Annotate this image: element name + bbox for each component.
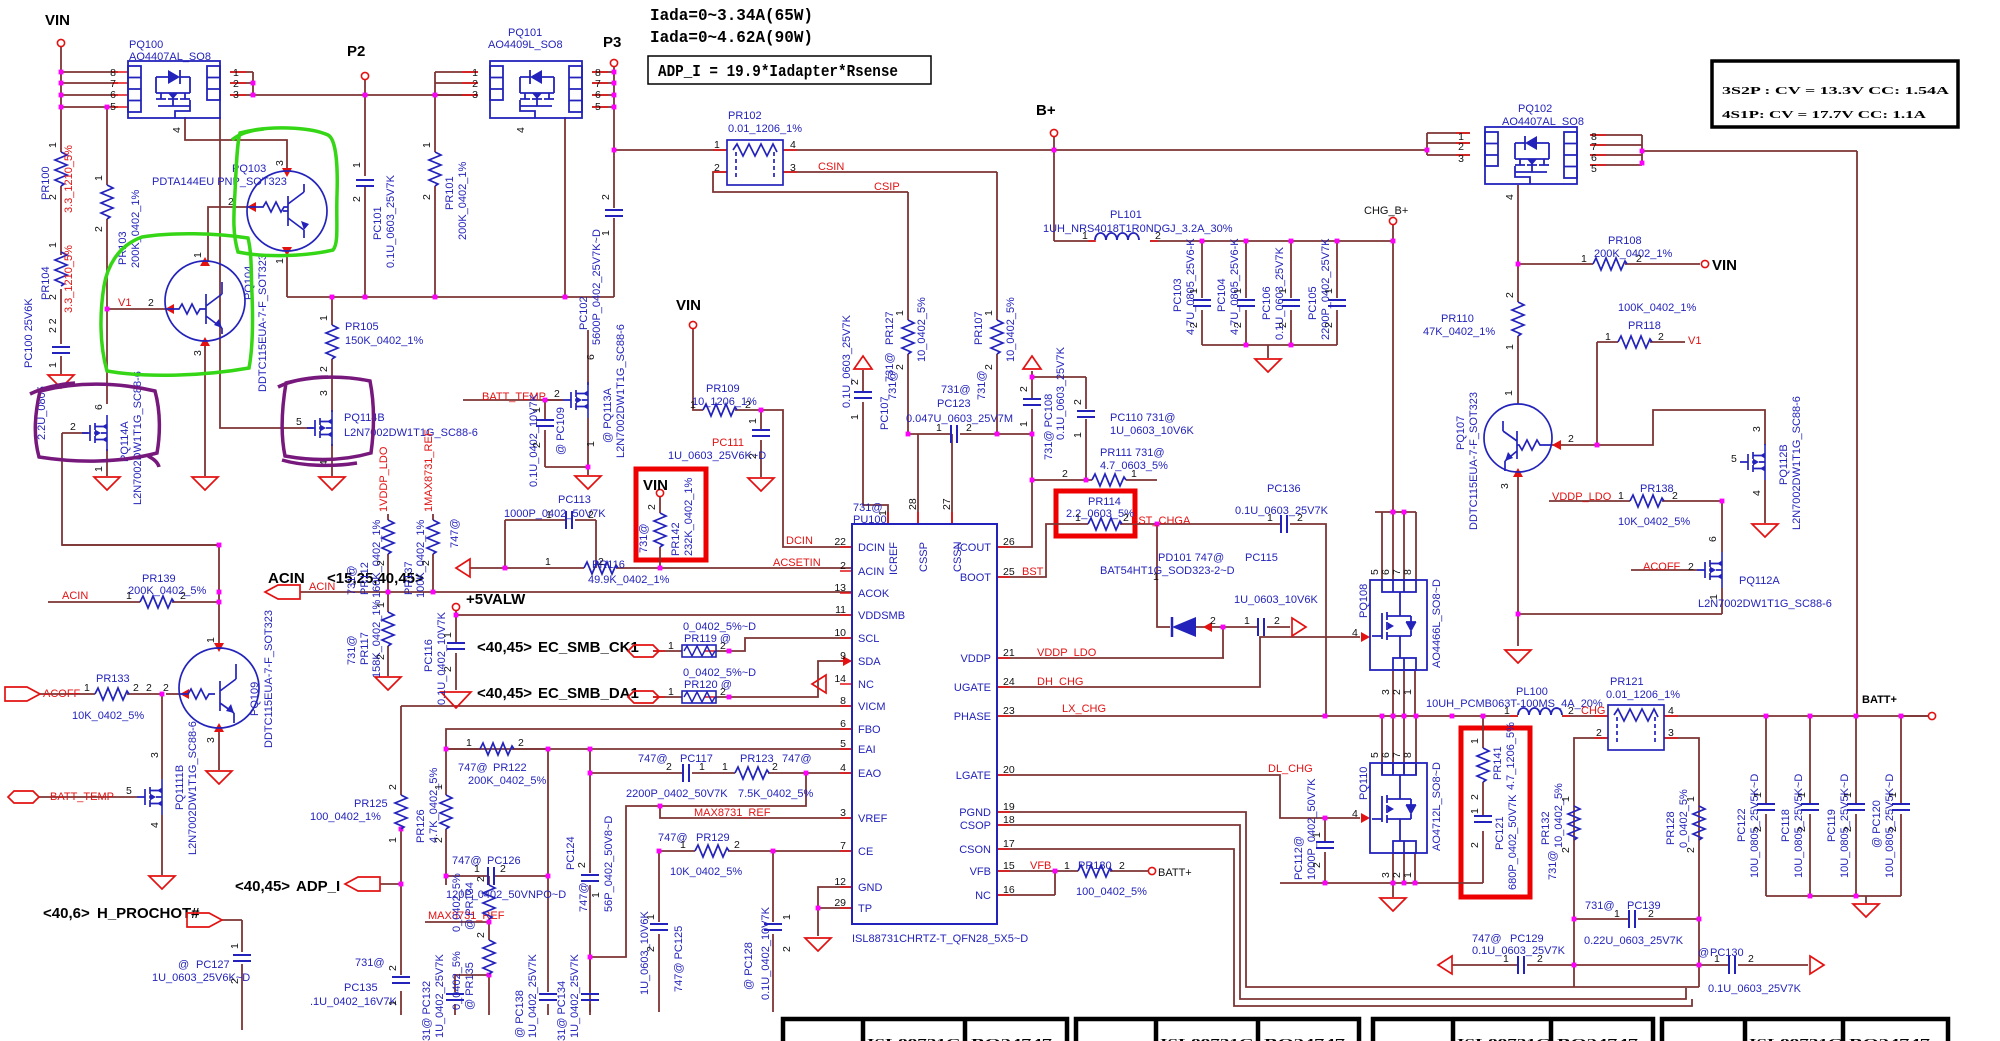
svg-text:CSSP: CSSP (918, 542, 930, 572)
svg-text:2: 2 (531, 442, 543, 448)
svg-text:PC107: PC107 (879, 396, 891, 430)
svg-text:1: 1 (645, 914, 657, 920)
annotation green loop PQ104 (101, 234, 253, 376)
svg-text:0.1U_0603_25V7K: 0.1U_0603_25V7K (841, 314, 853, 408)
junction (217, 600, 222, 605)
svg-text:3: 3 (1458, 153, 1464, 165)
capacitor PC101 (351, 162, 397, 268)
svg-text:PC103: PC103 (1172, 278, 1184, 312)
svg-text:VIN: VIN (643, 477, 668, 494)
resistor PR105 (318, 315, 424, 372)
svg-text:1U_0603_10V6K: 1U_0603_10V6K (1110, 425, 1194, 437)
svg-text:3: 3 (1668, 727, 1674, 739)
svg-text:731@: 731@ (346, 565, 358, 595)
ground (1752, 524, 1778, 537)
wire PC116 column (455, 615, 457, 690)
svg-text:BQ24747: BQ24747 (1264, 1037, 1346, 1041)
svg-text:VDDSMB: VDDSMB (858, 610, 905, 622)
ground (1380, 898, 1406, 911)
svg-text:0.1U_0603_25V7K: 0.1U_0603_25V7K (1472, 945, 1566, 957)
svg-text:3: 3 (274, 160, 286, 166)
junction (1572, 917, 1577, 922)
svg-text:56P_0402_50V8~D: 56P_0402_50V8~D (603, 816, 615, 912)
svg-text:B+: B+ (1036, 102, 1056, 119)
junction (444, 874, 449, 879)
svg-text:0_0402_5%: 0_0402_5% (451, 873, 463, 932)
svg-text:EC_SMB_DA1: EC_SMB_DA1 (538, 685, 639, 702)
svg-text:PQ101: PQ101 (508, 27, 542, 39)
junction (1221, 625, 1226, 630)
svg-text:ISL88731G: ISL88731G (1160, 1037, 1255, 1041)
junction (363, 93, 368, 98)
wire CHG_B+ column (1392, 225, 1394, 512)
svg-text:2: 2 (1796, 826, 1808, 832)
resistor PR138 (1552, 483, 1690, 528)
svg-text:6: 6 (585, 354, 597, 360)
resistor PR101 (421, 142, 469, 240)
wire right rail from PQ102 (1642, 151, 1857, 716)
wire PQ108 bottom stubs (1393, 671, 1415, 716)
svg-text:19: 19 (1003, 801, 1015, 813)
resistor PR123 (722, 753, 813, 800)
resistor PR128 (1665, 789, 1705, 853)
capacitor PC102 (578, 194, 623, 345)
resistor PR114 (1066, 496, 1191, 530)
svg-text:2: 2 (1072, 399, 1084, 405)
wire PR137 column (432, 514, 434, 592)
junction (1289, 239, 1294, 244)
svg-text:1: 1 (421, 142, 433, 148)
junction (995, 432, 1000, 437)
svg-text:731@ PC108: 731@ PC108 (1043, 394, 1055, 460)
svg-text:PR101: PR101 (444, 176, 456, 210)
svg-text:PR130: PR130 (1078, 860, 1112, 872)
svg-text:2: 2 (1188, 322, 1200, 328)
resistor PR117 (346, 599, 394, 678)
svg-text:2: 2 (70, 421, 76, 433)
svg-text:0.1U_0603_25V7K: 0.1U_0603_25V7K (385, 174, 397, 268)
junction (1155, 522, 1160, 527)
svg-text:1: 1 (474, 863, 480, 875)
svg-text:PC102: PC102 (578, 296, 590, 330)
junction (59, 70, 64, 75)
junction (543, 398, 548, 403)
svg-text:3: 3 (790, 162, 796, 174)
svg-text:31@ PC134: 31@ PC134 (556, 981, 568, 1041)
ground (48, 375, 74, 388)
svg-text:LX_CHG: LX_CHG (1062, 703, 1106, 715)
svg-text:PC113: PC113 (558, 494, 591, 506)
svg-text:V1: V1 (118, 297, 131, 309)
junction (487, 920, 492, 925)
svg-text:10K_0402_5%: 10K_0402_5% (670, 866, 742, 878)
junction (588, 747, 593, 752)
svg-text:AO4466L_SO8~D: AO4466L_SO8~D (1431, 579, 1443, 668)
svg-text:PC100 25V6K: PC100 25V6K (23, 298, 35, 368)
wire VICM row (401, 705, 852, 707)
svg-text:BQ24747: BQ24747 (1557, 1037, 1639, 1041)
junction (816, 906, 821, 911)
svg-text:0.1U_0603_25V7K: 0.1U_0603_25V7K (1235, 505, 1329, 517)
svg-text:2: 2 (1537, 953, 1543, 965)
svg-text:23: 23 (1003, 705, 1015, 717)
svg-text:2: 2 (1210, 615, 1216, 627)
svg-text:4: 4 (1352, 808, 1358, 820)
svg-text:PL100: PL100 (1516, 686, 1548, 698)
svg-text:1: 1 (466, 737, 472, 749)
junction (1425, 148, 1430, 153)
junction (546, 747, 551, 752)
svg-text:2 2: 2 2 (47, 318, 59, 333)
svg-text:DDTC115EUA-7-F_SOT323: DDTC115EUA-7-F_SOT323 (1468, 392, 1480, 530)
svg-text:+5VALW: +5VALW (466, 591, 526, 608)
wire node rail y297 (287, 296, 614, 298)
junction (217, 590, 222, 595)
svg-text:1: 1 (274, 258, 286, 264)
svg-text:PC123: PC123 (937, 398, 971, 410)
wire bottom return (1574, 986, 1699, 988)
junction (1244, 239, 1249, 244)
svg-text:100K_0402_1%: 100K_0402_1% (1618, 302, 1697, 314)
junction (59, 105, 64, 110)
svg-text:CHG_B+: CHG_B+ (1364, 205, 1408, 217)
svg-text:31@ PC132: 31@ PC132 (421, 981, 433, 1041)
resistor PR139 (62, 573, 207, 608)
svg-text:10U_0805_25V5K~D: 10U_0805_25V5K~D (1884, 774, 1896, 878)
svg-text:PR133: PR133 (96, 673, 130, 685)
svg-text:1: 1 (983, 310, 995, 316)
svg-text:5: 5 (126, 785, 132, 797)
wire PD101 to VDDP (1222, 627, 1224, 658)
capacitor PC124 (565, 816, 615, 912)
svg-text:22: 22 (834, 536, 846, 548)
junction (1323, 714, 1328, 719)
svg-text:1: 1 (1153, 571, 1159, 583)
wire PQ104 emitter to gnd (204, 341, 206, 476)
svg-text:1: 1 (747, 418, 759, 424)
junction (105, 307, 110, 312)
wire LX_CHG bus (997, 715, 1928, 717)
svg-text:1: 1 (1503, 953, 1509, 965)
svg-text:<40,6>: <40,6> (43, 905, 90, 922)
svg-text:6: 6 (110, 89, 116, 101)
table 1 ISL88731G/BQ24747 (783, 1019, 1067, 1041)
capacitor PC121 (1469, 794, 1519, 890)
junction (1640, 149, 1645, 154)
net port (1050, 129, 1057, 136)
wire PQ113A gate (463, 399, 563, 401)
svg-text:2: 2 (840, 560, 846, 572)
svg-text:Iada=0~3.34A(65W): Iada=0~3.34A(65W) (650, 7, 813, 26)
svg-text:@: @ (1698, 947, 1709, 959)
svg-text:1: 1 (1685, 796, 1697, 802)
junction (1391, 881, 1396, 886)
svg-text:PC135: PC135 (344, 982, 378, 994)
svg-text:1: 1 (433, 784, 445, 790)
svg-text:2: 2 (1123, 512, 1129, 524)
junction (1572, 963, 1577, 968)
svg-text:747@: 747@ (638, 753, 668, 765)
svg-text:2: 2 (666, 761, 672, 773)
wire PQ112B drain/source (1764, 425, 1766, 523)
svg-text:1: 1 (1402, 689, 1414, 695)
svg-text:PQ109: PQ109 (249, 682, 261, 716)
svg-text:2: 2 (646, 504, 658, 510)
svg-text:2: 2 (1062, 468, 1068, 480)
svg-text:CHG: CHG (1581, 705, 1605, 717)
wire PQ107 emitter rail (1518, 472, 1722, 646)
svg-text:21: 21 (1003, 647, 1015, 659)
resistor PR104 (40, 242, 75, 313)
wire DCIN run (693, 329, 852, 547)
svg-text:1: 1 (1244, 615, 1250, 627)
svg-text:PC118: PC118 (1780, 809, 1792, 842)
ground (1255, 359, 1281, 372)
svg-text:2: 2 (720, 686, 726, 698)
highlight box PR141/PC121 (1461, 728, 1530, 897)
junction (1640, 161, 1645, 166)
transistor PQ107 (1484, 404, 1552, 472)
wire P2 stub (364, 80, 366, 95)
capacitor PC129 (1472, 933, 1566, 974)
svg-text:2: 2 (1658, 331, 1664, 343)
wire PQ102 left pins (1427, 133, 1470, 155)
svg-text:1: 1 (93, 175, 105, 181)
wire PQ112A column (1721, 501, 1723, 614)
mosfet PQ112B (1731, 396, 1803, 530)
capacitor PC120 (1871, 774, 1910, 878)
svg-text:2: 2 (420, 560, 432, 566)
capacitor PC103 (1172, 238, 1211, 335)
svg-text:1: 1 (1402, 872, 1414, 878)
junction (1414, 714, 1419, 719)
wire PC112 column (1324, 818, 1326, 883)
svg-text:ISL88731G: ISL88731G (1749, 1037, 1844, 1041)
wire PC138 column (547, 749, 549, 1015)
svg-text:PC129: PC129 (1510, 933, 1544, 945)
svg-text:1: 1 (1075, 512, 1081, 524)
junction (759, 408, 764, 413)
svg-text:VDDP_LDO: VDDP_LDO (1552, 491, 1612, 503)
svg-text:9: 9 (840, 650, 846, 662)
svg-text:<40,45>: <40,45> (477, 685, 532, 702)
svg-text:4: 4 (515, 127, 527, 133)
wire PQ114B gate run (220, 117, 313, 428)
wire PC110 column (1085, 377, 1087, 480)
junction (1335, 239, 1340, 244)
wire VIN left bus (60, 47, 62, 374)
svg-text:PC105: PC105 (1307, 286, 1319, 320)
svg-text:2: 2 (576, 862, 588, 868)
svg-text:4: 4 (171, 127, 183, 133)
capacitor PC112 (1293, 778, 1334, 880)
svg-text:10UH_PCMB063T-100MS_4A_20%: 10UH_PCMB063T-100MS_4A_20% (1426, 698, 1603, 710)
svg-text:5: 5 (840, 738, 846, 750)
junction (804, 771, 809, 776)
svg-text:1: 1 (1581, 253, 1587, 265)
svg-text:2: 2 (146, 682, 152, 694)
svg-text:2: 2 (588, 509, 594, 521)
svg-text:2: 2 (1458, 141, 1464, 153)
junction (1697, 963, 1702, 968)
junction (588, 771, 593, 776)
svg-text:2: 2 (1596, 727, 1602, 739)
svg-text:1: 1 (1708, 594, 1720, 600)
wire crossbar PC123 (908, 433, 1032, 435)
svg-text:2: 2 (475, 876, 487, 882)
svg-text:1: 1 (1504, 705, 1510, 717)
svg-text:2: 2 (1297, 512, 1303, 524)
wire UGATE to PQ108 gate (997, 637, 1360, 687)
ground (149, 876, 175, 889)
wire PQ114A to PQ109 link (62, 544, 219, 546)
wire PR139 row (48, 601, 219, 603)
resistor PR133 (72, 673, 144, 722)
svg-text:2: 2 (966, 422, 972, 434)
svg-text:PR102: PR102 (728, 110, 762, 122)
svg-text:L2N7002DW1T1G_SC88-6: L2N7002DW1T1G_SC88-6 (1791, 396, 1803, 530)
svg-text:10U_0805_25V5K~D: 10U_0805_25V5K~D (1749, 774, 1761, 878)
svg-text:1: 1 (1714, 953, 1720, 965)
junction (59, 81, 64, 86)
mosfet PQ114A (70, 371, 144, 505)
svg-text:CSIN: CSIN (818, 161, 844, 173)
svg-text:L2N7002DW1T1G_SC88-6: L2N7002DW1T1G_SC88-6 (344, 427, 478, 439)
svg-text:2: 2 (163, 682, 169, 694)
svg-text:0_0402_5%: 0_0402_5% (451, 951, 463, 1010)
table 3 ISL88731G/BQ24747 (1373, 1019, 1653, 1041)
wire PC126 row (446, 875, 548, 877)
capacitor PC100 (23, 298, 70, 440)
net port (57, 39, 64, 46)
svg-text:1: 1 (1018, 421, 1030, 427)
resistor PR130 (1064, 860, 1192, 898)
resistor PR109 (690, 383, 757, 416)
mosfet PQ114B (296, 390, 478, 466)
capacitor PC118 (1780, 774, 1819, 878)
svg-text:ACSETIN: ACSETIN (773, 557, 821, 569)
wire PQ103 emitter to rail (286, 252, 288, 297)
gate/pin red arrows (165, 168, 1561, 823)
svg-text:2: 2 (1672, 490, 1678, 502)
svg-text:2: 2 (318, 366, 330, 372)
svg-text:2: 2 (475, 932, 487, 938)
svg-text:8: 8 (840, 695, 846, 707)
svg-text:PR117: PR117 (359, 632, 371, 665)
svg-text:158K_0402_1%: 158K_0402_1% (371, 599, 383, 678)
svg-text:2: 2 (148, 297, 154, 309)
junction (658, 804, 663, 809)
svg-text:DL_CHG: DL_CHG (1268, 763, 1313, 775)
junction (1720, 499, 1725, 504)
svg-text:VDDP: VDDP (960, 653, 991, 665)
svg-text:100_0402_1%: 100_0402_1% (310, 811, 381, 823)
svg-text:MAX8731_REF: MAX8731_REF (694, 807, 771, 819)
junction (1289, 343, 1294, 348)
svg-text:29: 29 (834, 897, 846, 909)
power arrows (854, 356, 872, 369)
junction (1808, 714, 1813, 719)
svg-text:2: 2 (772, 761, 778, 773)
svg-text:2: 2 (375, 654, 387, 660)
wire MAX8731_REF run (590, 773, 806, 957)
svg-text:2: 2 (442, 666, 454, 672)
wire ACOFF gate row (1631, 569, 1697, 571)
wire sense cap row (1452, 964, 1808, 966)
svg-text:EC_SMB_CK1: EC_SMB_CK1 (538, 639, 639, 656)
svg-text:@ PR135: @ PR135 (464, 962, 476, 1010)
svg-text:P3: P3 (603, 34, 621, 51)
svg-text:0.01_1206_1%: 0.01_1206_1% (1606, 689, 1680, 701)
svg-text:2: 2 (600, 194, 612, 200)
svg-text:BQ24747: BQ24747 (971, 1037, 1053, 1041)
svg-text:PC119: PC119 (1826, 809, 1838, 842)
svg-text:PQ1111B: PQ1111B (174, 765, 186, 810)
wire PQ109 base (166, 693, 180, 695)
svg-text:1: 1 (1842, 792, 1854, 798)
svg-text:ISL88731G: ISL88731G (867, 1037, 962, 1041)
capacitor PC106 (1261, 246, 1300, 340)
resistor PR135 (451, 932, 495, 1010)
svg-text:1: 1 (714, 139, 720, 151)
capacitor PC138 (514, 954, 557, 1038)
svg-text:PD101 747@: PD101 747@ (1158, 552, 1224, 564)
svg-text:731@: 731@ (1585, 900, 1615, 912)
svg-text:@ PC109: @ PC109 (555, 407, 567, 455)
wire CSOP return (997, 825, 1686, 999)
net port (610, 59, 617, 66)
svg-text:PR116: PR116 (592, 559, 625, 571)
svg-text:FBO: FBO (858, 724, 881, 736)
wire PQ114A gate run (62, 433, 219, 545)
junction (1084, 478, 1089, 483)
mosfet PQ102 (1458, 103, 1597, 200)
capacitor PC119 (1826, 774, 1865, 878)
svg-text:2: 2 (1560, 847, 1572, 853)
svg-text:25: 25 (1003, 566, 1015, 578)
svg-text:VFB: VFB (1030, 860, 1051, 872)
svg-text:DH_CHG: DH_CHG (1037, 676, 1083, 688)
junction (658, 566, 663, 571)
wire PC124 column (589, 749, 591, 1012)
svg-text:ICOUT: ICOUT (957, 542, 992, 554)
wire GND TP (818, 887, 852, 936)
svg-text:3: 3 (192, 350, 204, 356)
wire NC16 row (997, 871, 1055, 895)
junction (771, 849, 776, 854)
svg-text:1: 1 (1504, 344, 1516, 350)
capacitor PC113 (504, 494, 606, 529)
svg-text:BST_CHGA: BST_CHGA (1131, 515, 1191, 527)
wire PQ108 top stubs (1375, 512, 1416, 580)
svg-text:PR108: PR108 (1608, 235, 1642, 247)
capacitor PC109 (528, 393, 567, 487)
junction (1391, 239, 1396, 244)
junction (1402, 510, 1407, 515)
svg-text:2: 2 (93, 226, 105, 232)
svg-text:PR141: PR141 (1492, 746, 1504, 780)
resistor PR118 (1605, 302, 1701, 348)
svg-text:PR122: PR122 (493, 762, 527, 774)
svg-text:PQ114A: PQ114A (119, 421, 131, 462)
junction (1052, 148, 1057, 153)
wire CSIP (713, 172, 908, 434)
svg-text:4: 4 (1751, 490, 1763, 496)
mosfet PQ100 (110, 39, 239, 133)
wire main rail y95 (253, 94, 478, 96)
wire P3 column with PC102 (613, 67, 615, 297)
wire PR111 row (1032, 479, 1157, 481)
